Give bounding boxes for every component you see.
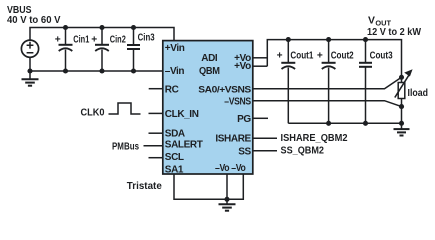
svg-text:–Vo –Vo: –Vo –Vo	[215, 163, 246, 174]
load Iload (variable load box)	[395, 69, 428, 106]
svg-text:SA1: SA1	[165, 164, 184, 175]
wire source bottom	[29, 57, 31, 71]
wire -Vo down	[226, 174, 228, 199]
clock pulse symbol	[109, 103, 141, 114]
node source bottom junction	[27, 68, 32, 73]
svg-text:Cin2: Cin2	[110, 34, 126, 45]
svg-text:CLK0: CLK0	[81, 108, 105, 119]
node Cout3 top	[363, 37, 368, 42]
svg-text:40 V to 60 V: 40 V to 60 V	[7, 15, 61, 26]
svg-text:V: V	[368, 16, 375, 27]
svg-text:ADI: ADI	[201, 53, 218, 64]
node -Vo ground junction	[224, 197, 229, 202]
svg-text:RC: RC	[165, 84, 179, 95]
wire SCL stub	[149, 157, 163, 159]
wire ISHARE stub	[253, 137, 277, 139]
U1 device name	[199, 53, 220, 77]
svg-text:+: +	[317, 51, 323, 62]
node Cin2 top	[99, 25, 104, 30]
wire SA0/+VSNS sense line	[253, 77, 402, 88]
svg-text:+Vo: +Vo	[234, 61, 251, 72]
svg-text:Cout2: Cout2	[331, 50, 354, 61]
wire top output rail	[267, 40, 401, 78]
wire CLK_IN stub	[149, 112, 163, 114]
node bottom rail right	[399, 121, 404, 126]
voltage source V1	[21, 40, 38, 57]
wire RC stub	[149, 88, 163, 90]
svg-text:PG: PG	[237, 114, 251, 125]
node Cin2 bottom	[99, 68, 104, 73]
net label VOUT	[367, 16, 421, 38]
ground (output)	[394, 123, 410, 135]
svg-text:ISHARE_QBM2: ISHARE_QBM2	[281, 133, 348, 144]
wire SS stub	[253, 150, 277, 152]
svg-text:CLK_IN: CLK_IN	[165, 109, 199, 120]
wire +Vo stub 2	[253, 65, 267, 67]
wire -VSNS sense line	[253, 101, 402, 107]
node Cin3 top	[131, 25, 136, 30]
U1 pin labels left column	[165, 43, 203, 175]
net label VBUS	[7, 5, 61, 26]
node Iload top	[399, 75, 404, 80]
svg-text:PMBus: PMBus	[112, 142, 139, 153]
svg-text:SS: SS	[238, 146, 251, 157]
svg-text:+Vin: +Vin	[165, 43, 185, 54]
wire bottom input rail	[30, 70, 163, 72]
ground (module)	[219, 199, 236, 210]
op-amp U1 ADI QBM module body	[163, 41, 253, 174]
ground (input)	[22, 71, 39, 86]
wire SDA stub	[149, 132, 163, 134]
wire top input rail	[30, 28, 174, 41]
svg-text:–VSNS: –VSNS	[224, 96, 251, 107]
svg-text:Cin1: Cin1	[73, 34, 89, 45]
svg-text:Cout3: Cout3	[370, 50, 393, 61]
svg-text:SCL: SCL	[165, 152, 184, 163]
capacitor Cin3	[127, 28, 155, 72]
svg-text:SS_QBM2: SS_QBM2	[281, 146, 325, 157]
capacitor Cin2	[91, 28, 126, 72]
svg-text:QBM: QBM	[199, 66, 220, 77]
capacitor Cout2	[317, 40, 354, 124]
wire +Vo stub 1	[253, 57, 267, 59]
node Cin1 top	[63, 25, 68, 30]
svg-text:+: +	[277, 51, 283, 62]
capacitor Cin1	[55, 28, 90, 72]
wire bottom output rail	[288, 122, 401, 124]
svg-text:Tristate: Tristate	[127, 181, 162, 192]
svg-text:SA0/+VSNS: SA0/+VSNS	[198, 83, 251, 94]
svg-text:Cin3: Cin3	[138, 33, 155, 44]
wire Iload to bottom rail	[401, 107, 403, 124]
capacitor Cout1	[277, 40, 314, 124]
node bottom rail at Cout2	[326, 121, 331, 126]
svg-text:ISHARE: ISHARE	[215, 134, 251, 145]
node Cout2 top	[326, 37, 331, 42]
wire SA1 to ground	[174, 174, 243, 199]
svg-text:12 V to 2 kW: 12 V to 2 kW	[367, 27, 421, 38]
wire PG stub	[253, 117, 268, 119]
node Cin3 bottom	[131, 68, 136, 73]
capacitor Cout3	[359, 40, 393, 124]
wire SALERT stub	[144, 145, 163, 147]
svg-text:+: +	[55, 34, 61, 45]
svg-text:Cout1: Cout1	[290, 50, 313, 61]
svg-text:+: +	[91, 34, 97, 45]
node bottom rail at Cout3	[363, 121, 368, 126]
svg-text:SDA: SDA	[165, 129, 185, 140]
node Cin1 bottom	[63, 68, 68, 73]
U1 pin labels right column	[198, 53, 251, 174]
svg-text:Iload: Iload	[408, 88, 429, 99]
node Iload bottom	[399, 104, 404, 109]
node Cout1 top	[286, 37, 291, 42]
svg-text:–Vin: –Vin	[165, 66, 185, 77]
svg-text:SALERT: SALERT	[165, 140, 203, 151]
